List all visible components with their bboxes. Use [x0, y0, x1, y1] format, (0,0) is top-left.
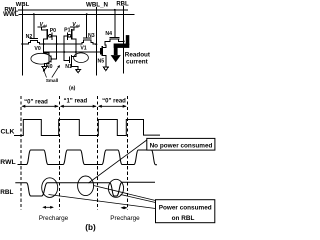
- nmos N5 source lead: [102, 56, 106, 68]
- annotation precharge arrow 2: [122, 207, 127, 209]
- pointer line Power box to ellipse 2: [94, 186, 156, 201]
- transistor N2 source-drain path with V0 wire: [22, 40, 96, 44]
- svg-text:Precharge: Precharge: [39, 215, 69, 222]
- junction dot WBL/V0: [21, 43, 23, 45]
- pmos P1 gate bubble: [68, 34, 71, 37]
- wire lower cross-couple (V1 run): [44, 51, 101, 53]
- junction dot P0 drain/V0: [43, 43, 45, 45]
- svg-text:N0: N0: [46, 64, 53, 70]
- nmos N0 source lead: [44, 63, 49, 66]
- highlight ellipse RBL precharge 2: [108, 179, 123, 197]
- svg-text:(b): (b): [85, 223, 96, 232]
- wire P0 gate to cross-couple vertical: [51, 36, 57, 59]
- transistor N2 gate: [30, 38, 37, 40]
- svg-text:(a): (a): [69, 86, 76, 92]
- svg-text:Small: Small: [46, 78, 58, 83]
- pmos P0 channel: [46, 30, 48, 39]
- junction dot RWL/N4: [114, 9, 116, 11]
- nmos N0 drain tap from V0: [44, 44, 49, 53]
- arrow Small to N1: [52, 67, 59, 78]
- nmos N1 gate bar: [68, 57, 70, 63]
- svg-text:Precharge: Precharge: [110, 215, 140, 222]
- highlight ellipse around N1: [74, 53, 89, 63]
- transistor N4 channel: [110, 38, 119, 40]
- annotation precharge arrow 1: [42, 206, 127, 209]
- pointer line No-power box to RBL flat read: [89, 140, 147, 183]
- pmos P1 drain lead down to V1 wire: [72, 39, 76, 57]
- nmos N1 channel: [71, 56, 73, 65]
- nmos N0 gate bar: [50, 56, 52, 62]
- pmos P0 gate bubble: [49, 34, 52, 37]
- wire N4 source lead to N5: [105, 39, 110, 48]
- pmos P0 gate bar: [51, 33, 53, 39]
- dashed period line 4: [127, 96, 129, 210]
- waveform RBL: [15, 182, 155, 196]
- dashed period line 1: [20, 96, 22, 210]
- annotation arrow period 3: [99, 105, 126, 107]
- callout box No power consumed: [147, 138, 215, 150]
- arrow Small to N0: [44, 71, 47, 78]
- pmos P0 source lead from Vdd: [38, 26, 45, 28]
- ground under N1: [76, 69, 81, 72]
- junction dot P0 gate tap/V0: [56, 43, 58, 45]
- pmos P1 channel: [71, 30, 73, 39]
- annotation arrow period 2: [61, 105, 96, 107]
- svg-text:N1: N1: [65, 64, 72, 70]
- svg-text:WBL_N: WBL_N: [86, 2, 109, 9]
- dashed period line 2: [59, 96, 61, 210]
- ground under N0: [42, 67, 47, 70]
- nmos N1 source lead: [72, 64, 79, 69]
- svg-text:“1” read: “1” read: [63, 99, 87, 105]
- highlight ellipse RBL precharge 1: [42, 178, 58, 198]
- waveform RWL: [18, 150, 158, 165]
- wire RBL vertical: [123, 7, 125, 74]
- svg-text:WWL: WWL: [3, 11, 19, 18]
- svg-text:N3: N3: [88, 33, 95, 39]
- highlight ellipse RBL no-discharge: [78, 176, 94, 196]
- svg-text:N4: N4: [105, 31, 112, 37]
- wire WBL_N vertical: [95, 8, 97, 76]
- pmos P0 drain lead to V0: [44, 39, 48, 44]
- wire N3 gate tap from WWL: [86, 14, 88, 38]
- svg-text:on RBL: on RBL: [172, 215, 195, 222]
- wire WWL horizontal: [19, 13, 134, 15]
- svg-text:Power consumed: Power consumed: [159, 204, 212, 211]
- transistor N4 gate: [110, 36, 119, 38]
- svg-text:P0: P0: [50, 28, 56, 34]
- nmos N5 channel: [101, 47, 103, 56]
- svg-text:CLK: CLK: [1, 129, 15, 136]
- junction dot N1 gate tap/V1: [63, 51, 65, 53]
- pmos P1 source lead from Vdd: [71, 26, 78, 28]
- svg-text:RBL: RBL: [116, 2, 129, 8]
- annotation arrow period 1: [21, 105, 126, 108]
- transistor N3 gate: [84, 37, 91, 39]
- junction dot N3/WBL_N: [95, 43, 97, 45]
- svg-text:“0” read: “0” read: [24, 99, 48, 105]
- svg-text:N5: N5: [97, 59, 104, 65]
- svg-text:dd: dd: [43, 24, 47, 28]
- nmos N5 gate bar: [100, 49, 102, 54]
- dashed period line 3: [97, 96, 99, 210]
- junction dot N4 drain/RBL: [123, 40, 125, 42]
- svg-text:RBL: RBL: [0, 189, 13, 196]
- waveform CLK: [14, 120, 160, 136]
- junction dot N1 drain/V1: [75, 51, 77, 53]
- wire RWL horizontal: [19, 9, 128, 11]
- junction dot WWL/N2: [33, 13, 35, 15]
- nmos N1 drain lead: [72, 56, 76, 58]
- svg-text:P1: P1: [64, 28, 70, 34]
- pointer line Power box to precharge 1: [49, 195, 156, 209]
- wire P1 gate to cross-couple vertical: [64, 36, 69, 61]
- wire N2 gate tap from WWL: [33, 14, 35, 38]
- readout current thick arrow: [111, 35, 130, 62]
- nmos N0 channel: [48, 53, 50, 63]
- ground under N5: [103, 67, 108, 70]
- pmos P1 gate bar: [66, 33, 68, 39]
- svg-text:dd: dd: [76, 24, 80, 28]
- svg-text:RWL: RWL: [0, 159, 15, 166]
- svg-text:V0: V0: [34, 46, 40, 52]
- nmos N5 drain lead: [102, 47, 106, 49]
- highlight ellipse around N0: [31, 53, 52, 64]
- svg-text:current: current: [126, 59, 149, 66]
- svg-text:“0” read: “0” read: [102, 99, 126, 105]
- svg-text:V1: V1: [80, 45, 86, 51]
- pointer line Power box to precharge 2: [121, 195, 156, 203]
- junction dot WWL/N3: [86, 13, 88, 15]
- svg-text:N2: N2: [26, 34, 33, 40]
- wire WBL vertical: [21, 7, 23, 76]
- callout box Power consumed on RBL: [156, 200, 215, 223]
- wire N4 gate tap from RWL: [114, 10, 116, 38]
- wire N4 drain lead to RBL: [119, 39, 124, 41]
- svg-text:No power consumed: No power consumed: [150, 142, 213, 149]
